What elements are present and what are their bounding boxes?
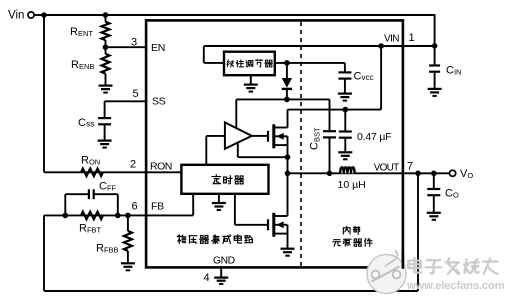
svg-text:RON: RON — [150, 160, 172, 172]
svg-text:1: 1 — [409, 32, 415, 44]
svg-text:SS: SS — [152, 95, 166, 107]
svg-text:www.elecfans.com: www.elecfans.com — [406, 280, 505, 292]
svg-text:3: 3 — [131, 37, 137, 49]
svg-text:FB: FB — [151, 200, 164, 212]
svg-text:0.47 µF: 0.47 µF — [357, 131, 391, 143]
svg-text:EN: EN — [151, 42, 165, 54]
svg-text:VIN: VIN — [384, 33, 399, 44]
svg-text:2: 2 — [130, 159, 136, 171]
svg-text:10 µH: 10 µH — [338, 179, 366, 191]
svg-text:4: 4 — [204, 272, 210, 284]
svg-text:6: 6 — [132, 200, 138, 212]
svg-text:VOUT: VOUT — [374, 163, 399, 174]
svg-text:Vin: Vin — [8, 10, 24, 22]
svg-text:7: 7 — [407, 161, 413, 173]
svg-text:5: 5 — [133, 88, 139, 100]
svg-text:GND: GND — [213, 256, 235, 267]
svg-text:Css: Css — [78, 117, 94, 129]
svg-text:Cvcc: Cvcc — [354, 71, 374, 83]
